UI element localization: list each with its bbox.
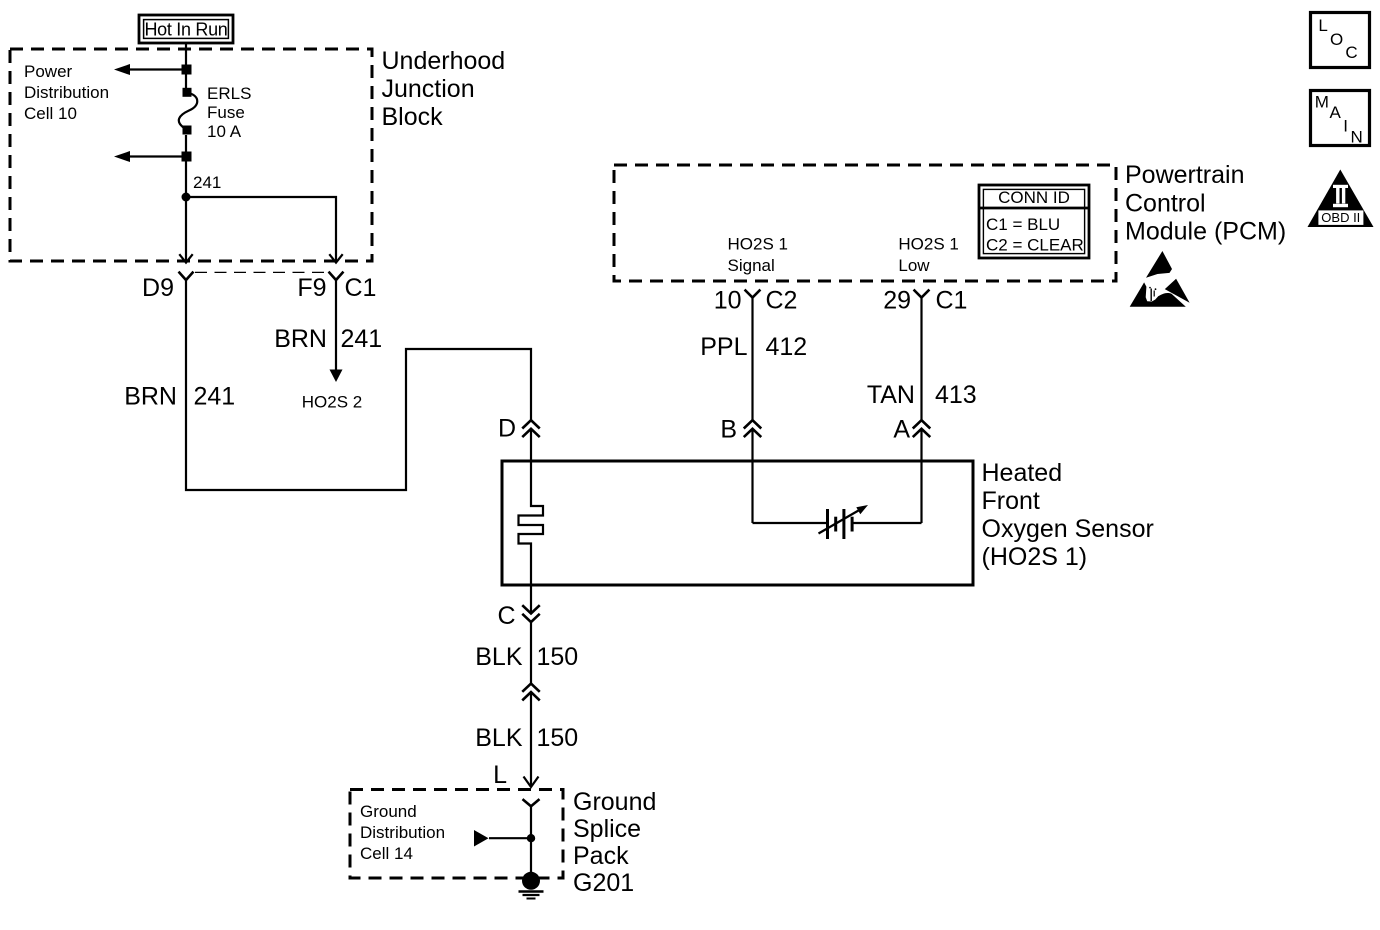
PCM pin connector 10 C2 (746, 291, 760, 298)
Powertrain Control Module dashed box (614, 165, 1116, 281)
label Ground Splice Pack G201 (573, 788, 656, 897)
svg-text:Hot In Run: Hot In Run (144, 20, 227, 40)
node splice junction (527, 834, 535, 842)
label HO2S 1 Signal (728, 235, 788, 275)
svg-text:L: L (1318, 16, 1327, 35)
heater element (519, 461, 544, 585)
svg-text:C2 = CLEAR: C2 = CLEAR (986, 236, 1084, 255)
inline harness connector (523, 684, 539, 700)
wire A into sensor (920, 429, 922, 523)
svg-text:241: 241 (193, 173, 221, 192)
svg-text:413: 413 (935, 381, 977, 409)
svg-text:Cell 14: Cell 14 (360, 844, 413, 863)
svg-text:Power: Power (24, 62, 73, 81)
svg-text:Distribution: Distribution (360, 823, 445, 842)
svg-text:Signal: Signal (728, 256, 775, 275)
wire BRN 241 from D9 to sensor D (186, 280, 531, 490)
svg-text:Junction: Junction (382, 75, 475, 103)
svg-text:Low: Low (898, 256, 930, 275)
svg-text:C2: C2 (766, 287, 798, 315)
svg-text:G201: G201 (573, 869, 634, 897)
svg-text:Ground: Ground (360, 802, 417, 821)
label Heated Front Oxygen Sensor (HO2S 1) (982, 459, 1154, 571)
svg-text:C: C (1345, 43, 1357, 62)
Underhood Junction Block dashed box (10, 49, 372, 261)
node junction 241 (182, 193, 191, 202)
connector face dashed line (195, 271, 328, 273)
wire branch to F9 with down arrowhead (186, 197, 343, 263)
svg-text:Pack: Pack (573, 842, 629, 870)
wire fuse to D9 connector with down arrowhead (179, 135, 192, 263)
svg-text:B: B (720, 416, 737, 444)
svg-text:Control: Control (1125, 189, 1206, 217)
svg-text:OBD II: OBD II (1321, 210, 1360, 225)
svg-text:BRN: BRN (274, 325, 327, 353)
svg-text:CONN ID: CONN ID (998, 188, 1070, 207)
svg-text:Module (PCM): Module (PCM) (1125, 218, 1286, 246)
LOC reference box (1311, 13, 1370, 68)
wire TAN 413 from pin 29 to sensor A (920, 298, 922, 421)
PCM pin connector 29 C1 (915, 291, 929, 298)
svg-text:HO2S 1: HO2S 1 (898, 235, 958, 254)
ground symbol (519, 892, 544, 899)
variable resistor (sensing element) (819, 505, 869, 539)
svg-text:ERLS: ERLS (207, 84, 251, 103)
svg-text:F9: F9 (297, 274, 326, 302)
label Underhood Junction Block (382, 47, 506, 131)
ground distribution stub arrow (474, 830, 531, 847)
svg-text:10 A: 10 A (207, 122, 242, 141)
splice pack connector L (524, 800, 539, 806)
svg-text:Block: Block (382, 103, 444, 131)
svg-text:D: D (498, 415, 516, 443)
inline connector A (914, 420, 930, 436)
Ground Distribution dashed box (350, 790, 563, 879)
svg-text:M: M (1315, 93, 1329, 112)
svg-text:BRN: BRN (124, 383, 177, 411)
splice G201 (522, 872, 540, 890)
svg-text:HO2S 1: HO2S 1 (728, 235, 788, 254)
svg-text:N: N (1351, 127, 1363, 146)
svg-text:C1: C1 (936, 287, 968, 315)
svg-text:Splice: Splice (573, 815, 641, 843)
arrow to Power Distribution (lower) (114, 151, 192, 162)
wire BRN 241 from F9 to HO2S 2 (330, 280, 343, 382)
svg-text:A: A (893, 416, 910, 444)
svg-text:Fuse: Fuse (207, 103, 245, 122)
svg-text:O: O (1330, 30, 1343, 49)
label Ground Distribution Cell 14 (360, 802, 445, 863)
MAIN reference box (1311, 91, 1370, 147)
svg-text:412: 412 (766, 333, 808, 361)
svg-text:I: I (1343, 117, 1348, 136)
svg-text:BLK: BLK (475, 724, 523, 752)
svg-text:A: A (1330, 103, 1342, 122)
wire B to variable resistor (753, 522, 829, 524)
wire BLK 150 lower with arrowhead (524, 692, 539, 787)
wire from Hot In Run down to fuse (185, 43, 187, 90)
svg-text:L: L (493, 761, 507, 789)
ESD sensitivity symbol (1130, 251, 1190, 307)
svg-text:241: 241 (194, 383, 236, 411)
fuse ERLS 10A (179, 88, 197, 135)
svg-text:C1: C1 (345, 274, 377, 302)
Heated Front Oxygen Sensor box (502, 461, 973, 585)
inline connector D (523, 420, 539, 436)
wire sensor to connector C (530, 585, 532, 613)
wire BLK 150 upper (530, 622, 532, 684)
svg-text:(HO2S 1): (HO2S 1) (982, 543, 1088, 571)
wire into splice (530, 806, 532, 873)
svg-text:150: 150 (537, 724, 579, 752)
svg-text:Front: Front (982, 487, 1040, 515)
label Powertrain Control Module (PCM) (1125, 161, 1286, 246)
wire B into sensor (751, 429, 753, 523)
connector D9 (179, 273, 192, 280)
wire PPL 412 from pin 10 to sensor B (751, 298, 753, 421)
wire D into sensor (530, 429, 532, 461)
connector F9 C1 (329, 273, 342, 280)
wire variable resistor to A (852, 522, 922, 524)
svg-text:Distribution: Distribution (24, 83, 109, 102)
svg-text:BLK: BLK (475, 643, 523, 671)
svg-text:D9: D9 (142, 274, 174, 302)
arrow to Power Distribution (upper) (114, 64, 192, 75)
label HO2S 1 Low (898, 235, 958, 275)
svg-text:PPL: PPL (700, 333, 747, 361)
inline connector B (745, 420, 761, 436)
inline connector C (523, 606, 539, 622)
svg-text:C1 = BLU: C1 = BLU (986, 215, 1060, 234)
svg-text:HO2S 2: HO2S 2 (302, 393, 362, 412)
svg-text:Oxygen Sensor: Oxygen Sensor (982, 515, 1154, 543)
svg-text:150: 150 (537, 643, 579, 671)
svg-text:Cell 10: Cell 10 (24, 104, 77, 123)
svg-text:C: C (497, 602, 515, 630)
svg-text:TAN: TAN (867, 381, 915, 409)
svg-text:10: 10 (714, 287, 742, 315)
svg-text:Ground: Ground (573, 788, 656, 816)
svg-text:Underhood: Underhood (382, 47, 506, 75)
OBD II symbol (1308, 170, 1374, 228)
svg-text:Powertrain: Powertrain (1125, 161, 1245, 189)
label ERLS Fuse 10 A (207, 84, 251, 141)
svg-text:29: 29 (883, 287, 911, 315)
svg-text:Heated: Heated (982, 459, 1063, 487)
svg-text:241: 241 (341, 325, 383, 353)
Hot In Run power feed box (139, 15, 233, 43)
CONN ID table (979, 185, 1089, 258)
label Power Distribution Cell 10 (24, 62, 109, 123)
